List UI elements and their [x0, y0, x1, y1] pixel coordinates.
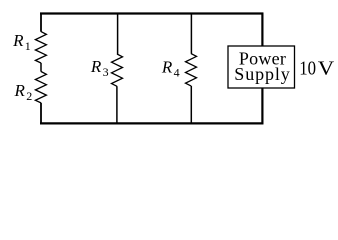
svg-text:Supply: Supply	[234, 64, 290, 84]
wire R4 branch lower	[190, 86, 192, 124]
svg-text:R: R	[161, 58, 173, 77]
resistor R2	[35, 72, 46, 103]
svg-text:4: 4	[174, 65, 180, 79]
resistor R1	[35, 32, 46, 63]
svg-text:2: 2	[26, 89, 32, 103]
wire bottom bus	[40, 122, 263, 124]
wire right branch upper	[261, 13, 263, 47]
svg-text:R: R	[12, 31, 24, 50]
wire top bus	[40, 12, 263, 14]
wire left branch upper	[40, 13, 42, 32]
resistor R3	[112, 54, 123, 86]
wire right branch lower	[261, 88, 263, 124]
power supply U1 box	[228, 46, 295, 88]
svg-text:1: 1	[25, 39, 31, 53]
wire R3 branch upper	[117, 14, 119, 55]
wire left branch lower	[40, 103, 42, 125]
svg-text:V: V	[318, 57, 335, 79]
svg-text:3: 3	[103, 65, 109, 79]
wire R4 branch upper	[190, 14, 192, 54]
resistor R4	[186, 54, 197, 86]
svg-text:R: R	[90, 57, 102, 76]
svg-text:R: R	[14, 81, 26, 100]
wire left branch middle	[40, 63, 42, 72]
svg-text:10: 10	[299, 57, 316, 79]
wire R3 branch lower	[116, 86, 118, 123]
